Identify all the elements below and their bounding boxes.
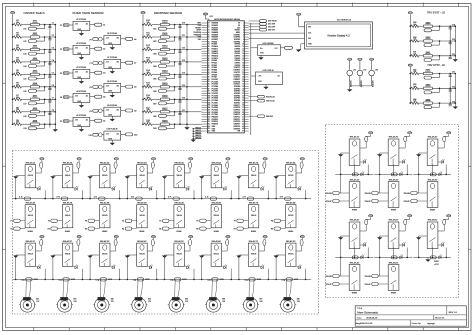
wire loop right K7A [267,190,269,198]
svg-text:A10: A10 [134,133,137,136]
resistor R4B [131,197,142,201]
dashed enclosure TRAVERSE DRIVER bank [325,125,458,298]
relay K5C [174,240,185,267]
switch SW1 [31,21,40,26]
svg-text:17: 17 [242,60,244,62]
svg-text:LD4: LD4 [23,66,26,68]
svg-text:R5: R5 [159,229,161,231]
svg-text:HF46F: HF46F [65,231,70,233]
svg-text:C1: C1 [52,23,54,25]
ground (SPDT rail) [425,257,430,262]
connector TRV-UP4 [326,283,350,287]
svg-text:D3/PE5: D3/PE5 [235,58,241,60]
svg-text:29: 29 [242,88,244,90]
node on/off row 9 [12,123,14,125]
svg-text:T-Dg: T-Dg [95,279,99,281]
capacitor C24 [449,101,455,106]
svg-text:P8: P8 [90,87,92,89]
indicator LT21 [424,56,440,62]
svg-text:RELAY-1B: RELAY-1B [26,201,36,204]
wire LO right bus [454,26,456,58]
connector BUZ (right of U11) [249,115,273,118]
node dropper junction 8 [174,111,176,113]
svg-text:86: 86 [208,60,210,62]
svg-text:4.7k: 4.7k [94,197,97,199]
wire interconnect row2 col7 [236,278,274,280]
svg-text:C17: C17 [182,110,185,112]
svg-text:D2/PE4: D2/PE4 [235,60,241,62]
diode D3U [438,136,446,148]
svg-text:PC0/D37: PC0/D37 [212,79,219,81]
node dropper row 4 [142,61,144,63]
svg-text:DROPPER SENSOR: DROPPER SENSOR [154,11,183,15]
svg-text:76: 76 [208,37,210,39]
node dropper cap bus 6 [179,86,181,88]
svg-text:T-Dg: T-Dg [170,279,174,281]
node dropper row 8 [142,111,144,113]
thermal switch T-Dg1 [21,278,38,282]
wire R19 to SW19 [419,25,424,27]
svg-text:50/38: 50/38 [71,279,75,281]
indicator LD1 [23,25,44,31]
svg-text:PL1/D48: PL1/D48 [212,100,218,102]
net labels GND cluster (below left of U11) [191,127,202,142]
svg-text:RELAY-5D: RELAY-5D [389,261,399,264]
node dropper junction 4 [174,61,176,63]
node LO cap bus 3 [449,55,451,57]
resistor R7B [242,197,253,201]
motor M4 [131,298,152,312]
wire K5U node [393,248,395,258]
svg-text:HF46F: HF46F [102,231,107,233]
svg-text:F8: F8 [271,221,273,223]
switch SW10 [161,21,170,26]
svg-text:C4: C4 [52,60,54,62]
node trv 4 [354,257,356,259]
power flag VCC (K5C) [189,236,193,240]
svg-text:50/38: 50/38 [34,279,38,281]
svg-text:TRV-DN: TRV-DN [325,193,332,195]
svg-text:GND(D): GND(D) [195,132,201,134]
thermal switch T-Dg5 [170,278,187,282]
connector IN-F2 [48,219,62,223]
sensor module U10 (plied yarn col B row 5) [89,129,138,146]
svg-text:LS1: LS1 [353,70,356,72]
dashed enclosure RELAY DRIVER bank [12,151,318,315]
display module U14 TM1637 [305,19,373,49]
svg-text:38: 38 [242,109,244,111]
svg-text:SRD-05: SRD-05 [214,175,220,177]
resistor R11 [144,33,152,39]
power flag VCC (dropper bus) [141,12,145,25]
switch SW17 [161,108,170,113]
svg-text:106: 106 [208,107,211,109]
wire on/off left bus [12,25,14,125]
svg-text:4.7k: 4.7k [280,197,283,199]
svg-text:37: 37 [242,107,244,109]
LED LED6C [222,265,228,269]
wire trv interconnect 2 [374,173,412,175]
wire on/off right bus [54,25,56,128]
svg-text:SRD-05: SRD-05 [177,215,183,217]
wire buzzer common [350,85,372,87]
svg-text:P4: P4 [60,97,62,99]
wire R8 to SW8 [22,111,31,113]
node interconnect col1 [15,198,17,200]
wire trunk to U12 [251,47,258,49]
resistor R2U [391,171,403,176]
svg-text:35: 35 [242,102,244,104]
svg-text:SRD-05: SRD-05 [288,254,294,256]
svg-text:C12: C12 [182,48,185,50]
svg-text:RELAY-5A: RELAY-5A [174,161,184,164]
connector TRV-UP3 [404,200,428,204]
node on/off row 7 [12,99,14,101]
diode D4A [147,162,154,173]
power flag VCC (K3C) [114,236,118,240]
wire interconnect row2 col6 [199,278,237,280]
wire loop right K5U [406,248,408,258]
wire on/off cap bus [49,25,51,128]
svg-text:C3: C3 [52,48,54,50]
svg-text:PC3/D34: PC3/D34 [212,86,219,88]
svg-text:SRD-05: SRD-05 [102,254,108,256]
svg-text:SRD-05: SRD-05 [28,215,34,217]
svg-text:SRD-05: SRD-05 [251,254,257,256]
svg-text:C15: C15 [182,85,185,87]
switch SW7 [31,95,40,100]
svg-text:77: 77 [208,39,210,41]
switch SW8 [31,108,40,113]
node SW2 junction [44,36,46,38]
svg-text:50/38: 50/38 [182,279,186,281]
svg-text:SRD-05: SRD-05 [139,215,145,217]
connector IN-F6 [197,219,211,223]
resistor R1 [14,20,22,26]
power flag VCC (LO) [408,12,412,27]
node interconnect col7 [238,198,240,200]
wire loop left K5C [164,255,166,279]
capacitor C4 [48,60,54,65]
wire SW16 to bus [169,98,187,100]
svg-text:RELAY-3C: RELAY-3C [100,240,110,243]
svg-text:40: 40 [242,114,244,116]
svg-text:4.7k: 4.7k [19,197,22,199]
diode D5C [184,239,191,251]
svg-text:C16: C16 [182,97,185,99]
wire dropper row 6 to U11 [187,86,202,88]
sensor module U3 (plied yarn col A row 3) [60,67,106,84]
svg-text:P3: P3 [60,73,62,75]
ground (K2C) [50,255,62,258]
wire loop left K8A [275,176,277,199]
svg-text:D30/PC7: D30/PC7 [234,105,241,107]
svg-text:RELAY-4B: RELAY-4B [137,201,147,204]
wire SW14 to bus [169,73,187,75]
svg-text:75: 75 [208,34,210,36]
wire loop left K3A [89,176,91,199]
capacitor C6 [48,85,54,90]
svg-text:P2: P2 [60,49,62,51]
switch SW2 [31,33,40,38]
diode D2U [399,136,407,148]
resistor R15 [144,82,152,88]
capacitor C10 [178,23,185,28]
motor brush block M1 [23,297,31,300]
svg-text:28: 28 [242,86,244,88]
microcontroller U11 ARDUINO MEGA2560 [207,16,244,133]
indicator LD9 [23,124,44,130]
node dropper junction 7 [174,99,176,101]
svg-text:R4: R4 [122,229,124,231]
svg-text:115: 115 [208,128,210,130]
svg-text:30: 30 [242,91,244,93]
indicator LT22 [424,74,440,80]
wire to motor M6 [211,279,214,297]
connector IN-F8 [271,219,285,223]
wire U11 right trunk [250,23,252,135]
svg-text:SRD-05: SRD-05 [214,254,220,256]
node LO junction 2 [439,40,441,42]
svg-text:Sheet 1/1: Sheet 1/1 [435,317,445,320]
thermal switch T-Dg2 [58,278,75,282]
svg-text:25: 25 [242,79,244,81]
svg-text:50/38: 50/38 [220,279,224,281]
title block drawn by [412,322,436,325]
power flag VCC (K2C) [77,236,81,240]
node dropper cap bus 7 [179,99,181,101]
svg-text:F7: F7 [234,221,236,223]
relay K3U [427,136,438,166]
LED LED2C [73,265,79,269]
switch SW3 [31,46,40,51]
wire K4U node [354,248,356,258]
svg-text:T-Dg: T-Dg [132,279,136,281]
wire loop left K3C [89,255,91,279]
sensor module U1 (plied yarn col A row 1) [60,19,106,36]
svg-text:A7: A7 [134,62,136,65]
wire dropper row 4 to U11 [187,61,202,63]
power flag VCC (K1C) [40,236,44,240]
wire to motor M4 [137,279,140,297]
ground (K4A) [125,176,137,179]
wire SW24 to bus [432,102,455,104]
diode D1U [360,136,368,148]
svg-text:HF46F: HF46F [391,293,396,295]
svg-text:RELAY-3B: RELAY-3B [100,201,110,204]
wire loop left K3U [418,153,420,193]
motor brush block M5 [172,297,180,300]
connector pins J2 (right of U11) [249,20,278,32]
svg-text:HF46F: HF46F [352,293,357,295]
svg-text:27: 27 [242,84,244,86]
motor brush block M8 [284,297,292,300]
svg-text:LD8: LD8 [23,116,26,118]
relay K8C [286,240,297,267]
wire dropper row 9 to U11 [187,123,202,125]
wire R7 to SW7 [22,98,31,100]
diode D3C [110,239,117,251]
wire LO left bus [409,26,411,56]
svg-text:D53 SW-IN: D53 SW-IN [268,21,277,23]
node interconnect2 col8 [275,279,277,281]
svg-text:T-Dg: T-Dg [207,279,211,281]
svg-text:LD6: LD6 [23,91,26,93]
ground (dropper bus) [184,126,189,130]
svg-text:47: 47 [242,131,244,133]
svg-text:D12/PB6: D12/PB6 [234,37,240,39]
svg-text:PC6/D31: PC6/D31 [212,93,219,95]
svg-text:D17/RX2: D17/RX2 [234,74,241,76]
svg-text:RELAY-3U: RELAY-3U [428,136,438,139]
resistor R6U [430,254,442,259]
svg-text:99: 99 [208,91,210,93]
svg-text:A2: A2 [103,48,105,51]
power flag VCC (K6A) [226,158,230,162]
node C5 bus [49,74,51,76]
svg-text:23: 23 [242,74,244,76]
svg-text:R2: R2 [48,229,50,231]
svg-text:EasyEDA V5.5.16: EasyEDA V5.5.16 [356,322,373,325]
svg-text:U7 FC03-M: U7 FC03-M [107,57,117,59]
wire trunk to U13 [251,75,256,77]
svg-text:80: 80 [208,46,210,48]
wire R22 to SW22 [419,73,424,75]
indicator LD6 [23,87,44,93]
capacitor C11 [178,35,185,40]
resistor R3B [94,197,105,201]
svg-text:P5: P5 [60,121,62,123]
indicator DS8 [153,112,174,118]
diode D2A [73,162,80,173]
svg-text:PC5/D32: PC5/D32 [212,91,219,93]
svg-text:DS9: DS9 [153,128,156,130]
wire trv interconnect 1 [335,173,373,175]
svg-text:U3 FC03-M: U3 FC03-M [76,67,86,69]
svg-text:T-Dg: T-Dg [244,279,248,281]
svg-text:D14/TX3: D14/TX3 [234,67,240,69]
wire R1 to SW1 [22,24,31,26]
node LO junction 1 [439,25,441,27]
sensor module U4 (plied yarn col A row 4) [60,91,106,108]
node on/off row 2 [12,36,14,38]
node interconnect2 col3 [89,279,91,281]
diode D6C [222,239,229,251]
buzzer LS3 [369,58,378,87]
motor M7 [242,298,263,312]
svg-text:SRD-05: SRD-05 [177,254,183,256]
switch SW24 [424,99,433,104]
resistor R20 [411,37,419,43]
wire SW1 to bus [39,24,55,26]
wire SW3 to bus [39,49,55,51]
switch SW13 [161,58,170,63]
svg-text:RELAY-5U: RELAY-5U [389,219,399,222]
connector TRV-UP5 [365,283,389,287]
svg-text:PL0/D49: PL0/D49 [212,98,218,100]
node dropper cap bus 2 [179,36,181,38]
wire loop right K5C [193,269,195,280]
wire loop right K5A [193,190,195,198]
wire R23 to SW23 [419,87,424,89]
wire R21 to SW21 [419,55,424,57]
svg-text:113: 113 [208,124,210,126]
svg-text:3V3: 3V3 [237,27,240,29]
svg-text:RELAY-6A: RELAY-6A [212,161,222,164]
svg-text:RELAY-3A: RELAY-3A [100,161,110,164]
svg-text:DS4: DS4 [153,66,156,68]
relay K7B [248,201,259,232]
wire loop left K4A [126,176,128,199]
svg-text:A1: A1 [103,24,105,27]
power flag VCC (K6C) [226,236,230,240]
resistor R7 [14,95,22,101]
resistor R24 [411,99,419,105]
svg-text:108: 108 [208,112,211,114]
switch SW19 [424,22,433,27]
wire loop right K4C [156,269,158,280]
thermal switch T-Dg4 [132,278,149,282]
node interconnect2 col1 [15,279,17,281]
svg-text:LD7: LD7 [23,103,26,105]
wire loop right K3A [119,190,121,198]
svg-text:4.7k: 4.7k [131,197,134,199]
svg-text:P1: P1 [60,25,62,27]
svg-text:RELAY-5B: RELAY-5B [174,201,184,204]
resistor R12 [144,45,152,51]
svg-text:24: 24 [242,77,244,79]
node on/off row 3 [12,49,14,51]
wire interconnect row1 col6 [199,198,237,200]
relay K6U [427,219,438,249]
node HI row 1 [410,73,412,75]
node LO row 3 [410,55,412,57]
svg-text:P6: P6 [90,39,92,41]
svg-text:32: 32 [242,95,244,97]
relay K3B [100,201,111,232]
ground (K7A) [236,176,248,179]
svg-text:U5 FC03-M: U5 FC03-M [76,115,86,117]
resistor R3 [14,45,22,51]
svg-text:81: 81 [208,48,210,50]
wire SW6 to bus [39,86,55,88]
wire SW7 to bus [39,98,55,100]
connector IN-R8 [271,227,286,231]
node interconnect col6 [201,198,203,200]
resistor R8 [14,107,22,113]
wire dropper row 2 to U11 [187,36,202,38]
svg-text:50/38: 50/38 [257,279,261,281]
svg-text:D9/PH6: D9/PH6 [235,44,241,46]
svg-text:RELAY-4A: RELAY-4A [137,161,147,164]
svg-text:SRD-05: SRD-05 [251,215,257,217]
wire trv interconnect 6 [413,256,451,258]
node trv 2 [393,174,395,176]
relay K2A [62,161,73,188]
node dropper cap bus 4 [179,61,181,63]
node dropper cap bus 1 [179,24,181,26]
svg-text:D51 DRP: D51 DRP [268,26,276,28]
LED LED5C [184,265,190,269]
resistor R8B [280,197,291,201]
wire R5 to SW5 [22,73,31,75]
connector IN-F5 [159,219,173,223]
svg-text:RELAY-5C: RELAY-5C [174,240,184,243]
svg-text:RELAY-1C: RELAY-1C [26,240,36,243]
capacitor C7 [48,97,54,102]
svg-text:SRD-05: SRD-05 [65,254,71,256]
svg-text:31: 31 [242,93,244,95]
